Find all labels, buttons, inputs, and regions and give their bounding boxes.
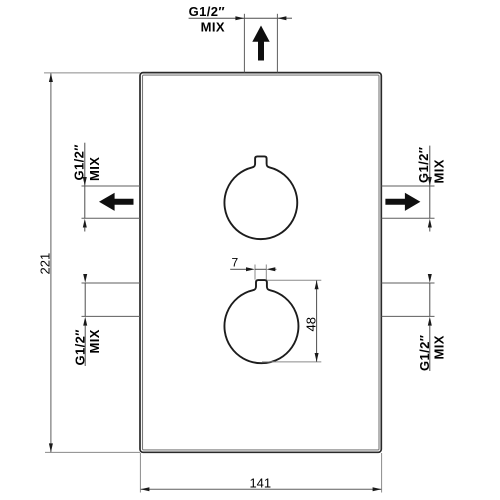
lower-left connection extension line bottom: [82, 315, 141, 317]
lower-left dim line between: [84, 283, 86, 316]
svg-text:G1/2″: G1/2″: [189, 4, 225, 19]
upper-left arrow tail: [84, 227, 86, 231]
svg-text:G1/2″: G1/2″: [72, 329, 87, 365]
svg-text:141: 141: [249, 476, 271, 491]
top dim tail right: [278, 17, 292, 19]
top leader line from G1/2 text: [189, 17, 244, 19]
svg-text:7: 7: [232, 256, 239, 270]
svg-text:MIX: MIX: [432, 335, 447, 359]
svg-text:G1/2″: G1/2″: [417, 335, 432, 371]
plate outer outline: [140, 73, 381, 453]
lower-right arrowhead pointing down: [428, 274, 432, 283]
dim 7 left tail line: [230, 268, 246, 270]
dim 48 line: [316, 281, 318, 362]
upper-left connection extension line top: [82, 185, 141, 187]
svg-text:MIX: MIX: [432, 159, 447, 183]
upper-right arrowhead pointing up: [428, 219, 432, 228]
upper-left arrowhead pointing up: [83, 219, 87, 228]
upper-right leader line: [429, 146, 431, 186]
plate inner outline: [143, 75, 380, 450]
svg-text:G1/2″: G1/2″: [72, 144, 87, 180]
upper-right connection extension line bottom: [382, 217, 435, 219]
dim 7 arrowhead pointing left: [267, 267, 276, 271]
upper-right flow arrow (solid right): [385, 193, 420, 211]
upper-left arrowhead pointing down: [83, 177, 87, 186]
upper-right arrow tail: [429, 227, 431, 231]
left dim arrowhead down: [49, 443, 53, 452]
upper-left leader line: [84, 143, 86, 186]
dim 48 arrowhead up: [315, 281, 319, 290]
tab width dim 7: extension line left: [254, 265, 256, 280]
bottom dim arrowhead left: [141, 487, 150, 491]
left overall dim line 221: [50, 73, 52, 452]
svg-text:221: 221: [38, 253, 53, 275]
bottom overall dim: extension line left: [139, 453, 141, 493]
upper-right arrowhead pointing down: [428, 177, 432, 186]
left overall dim: extension line bottom: [45, 451, 140, 453]
lower-left arrowhead pointing up: [83, 317, 87, 326]
svg-text:48: 48: [303, 317, 318, 331]
left dim arrowhead up: [49, 73, 53, 82]
svg-text:MIX: MIX: [201, 20, 225, 35]
left overall dim: extension line top: [44, 72, 140, 74]
svg-text:G1/2″: G1/2″: [416, 147, 431, 183]
lower-left connection extension line top: [82, 282, 141, 284]
lower-right arrowhead pointing up: [428, 317, 432, 326]
lower knob with tab: [224, 280, 298, 363]
dim 7 right tail: [275, 268, 276, 270]
lower-left arrowhead pointing down: [83, 274, 87, 283]
upper-left connection extension line bottom: [82, 217, 141, 219]
lower-left leader line: [84, 325, 86, 366]
bottom overall dim line 141: [141, 488, 382, 490]
upper knob with tab: [224, 156, 297, 239]
lower-right connection extension line top: [382, 282, 435, 284]
top connection extension line right: [276, 14, 278, 73]
bottom overall dim: extension line right: [381, 453, 383, 493]
upper-right connection extension line top: [382, 185, 435, 187]
dim 7 arrowhead pointing right: [246, 267, 255, 271]
dim 48 arrowhead down: [315, 353, 319, 362]
top flow arrow (solid up): [252, 26, 269, 61]
upper-right dim line between: [429, 186, 431, 218]
top dim line between extension lines: [244, 17, 277, 19]
top dim arrowhead pointing right: [235, 16, 244, 20]
svg-text:MIX: MIX: [87, 329, 102, 353]
tab width dim 7: extension line right: [265, 265, 267, 280]
lower-right leader line: [429, 325, 431, 371]
svg-text:MIX: MIX: [87, 157, 102, 181]
dim 7 line between: [255, 268, 266, 270]
bottom dim arrowhead right: [373, 487, 382, 491]
upper-left dim line between: [84, 186, 86, 218]
upper-left flow arrow (solid left): [99, 193, 134, 211]
lower-right connection extension line bottom: [382, 315, 435, 317]
knob height dim 48: extension line bottom: [262, 361, 321, 363]
lower-right dim line between: [429, 283, 431, 316]
top connection extension line left: [243, 14, 245, 73]
top dim arrowhead pointing left: [278, 16, 287, 20]
knob height dim 48: extension line top: [267, 279, 321, 281]
